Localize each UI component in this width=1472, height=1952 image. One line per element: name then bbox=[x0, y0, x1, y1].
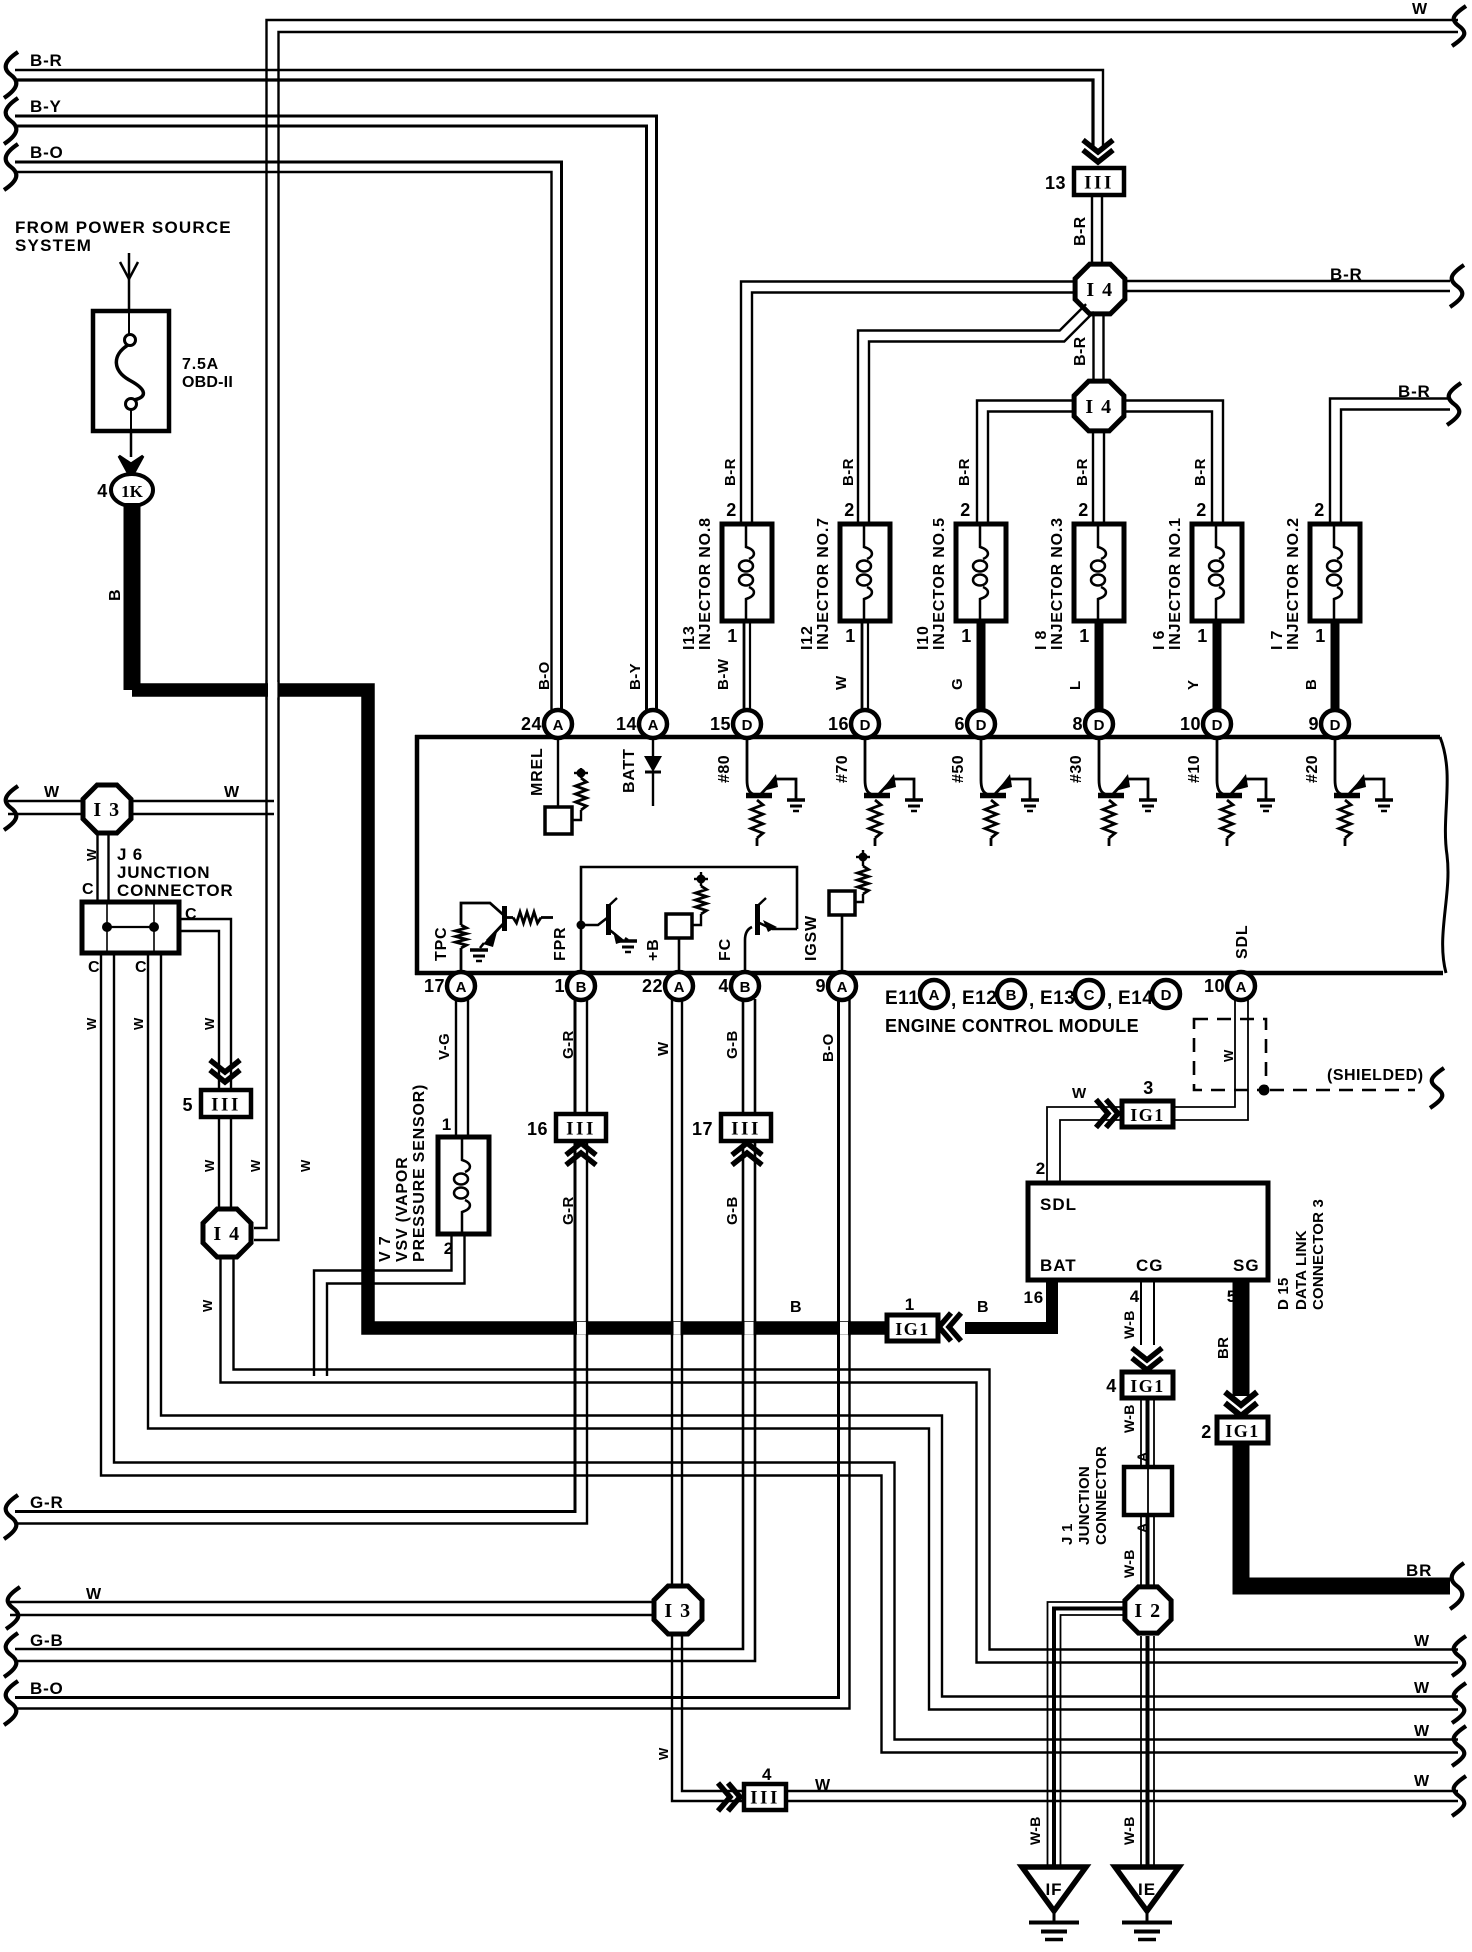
svg-text:D: D bbox=[1161, 987, 1172, 1004]
svg-text:BR: BR bbox=[1406, 1561, 1432, 1580]
wire G-B column bbox=[15, 999, 755, 1661]
svg-text:W: W bbox=[655, 1041, 672, 1056]
svg-text:C: C bbox=[88, 959, 100, 976]
svg-text:17: 17 bbox=[424, 976, 445, 996]
data link connector 3 (DLC3) box bbox=[1028, 1183, 1268, 1280]
connector 17 III bbox=[692, 1114, 771, 1141]
svg-text:I13: I13 bbox=[681, 625, 698, 650]
svg-text:G-R: G-R bbox=[30, 1493, 64, 1512]
svg-text:INJECTOR NO.5: INJECTOR NO.5 bbox=[931, 517, 948, 650]
svg-text:B-R: B-R bbox=[1398, 382, 1431, 401]
wire W-B from CG bbox=[1140, 1280, 1142, 1345]
svg-text:IG1: IG1 bbox=[1130, 1376, 1165, 1396]
transistor driver driver #80 bbox=[746, 739, 796, 846]
wire B thick from fuse bbox=[132, 690, 889, 1328]
svg-text:16: 16 bbox=[828, 714, 849, 734]
svg-text:W: W bbox=[84, 1017, 99, 1030]
svg-text:(SHIELDED): (SHIELDED) bbox=[1327, 1067, 1424, 1084]
wire B-Y feed bbox=[15, 116, 657, 712]
svg-text:I 3: I 3 bbox=[664, 1600, 691, 1622]
MREL relay driver bbox=[545, 738, 588, 834]
svg-text:W-B: W-B bbox=[1121, 1549, 1137, 1578]
connector continuation B-O left end bbox=[4, 1681, 18, 1725]
svg-text:SG: SG bbox=[1233, 1256, 1260, 1275]
wire B thick from fuse (vertical) bbox=[124, 503, 141, 690]
svg-text:IG1: IG1 bbox=[1225, 1421, 1260, 1441]
svg-text:PRESSURE SENSOR): PRESSURE SENSOR) bbox=[411, 1084, 428, 1262]
transistor driver driver #70 bbox=[864, 739, 914, 846]
svg-text:I10: I10 bbox=[915, 625, 932, 650]
svg-text:W: W bbox=[1414, 1723, 1430, 1740]
pin pin 22A +B bbox=[642, 972, 693, 1000]
pin pin 15D injector no.8 bbox=[710, 710, 761, 738]
svg-text:INJECTOR NO.2: INJECTOR NO.2 bbox=[1285, 517, 1302, 650]
svg-text:1: 1 bbox=[1079, 626, 1090, 646]
svg-text:2: 2 bbox=[1201, 1422, 1212, 1442]
label ECM connector legend E11-E14 bbox=[885, 980, 1180, 1011]
svg-text:2: 2 bbox=[1314, 500, 1325, 520]
svg-text:JUNCTION: JUNCTION bbox=[1076, 1466, 1093, 1545]
svg-text:A: A bbox=[1134, 1451, 1150, 1462]
svg-text:2: 2 bbox=[1196, 500, 1207, 520]
svg-text:14: 14 bbox=[616, 714, 637, 734]
svg-text:INJECTOR NO.8: INJECTOR NO.8 bbox=[697, 517, 714, 650]
svg-text:ENGINE CONTROL MODULE: ENGINE CONTROL MODULE bbox=[885, 1016, 1139, 1036]
transistor driver driver #10 bbox=[1216, 739, 1266, 846]
connector continuation shield right end bbox=[1430, 1068, 1444, 1108]
junction connector octagon I4 upper bbox=[1075, 264, 1125, 314]
ground IE bbox=[1115, 1867, 1179, 1940]
svg-text:B-W: B-W bbox=[715, 658, 732, 690]
svg-text:2: 2 bbox=[844, 500, 855, 520]
arrow into fuse bbox=[120, 253, 138, 311]
wire W J6 bottom1 staircase bbox=[101, 953, 1458, 1753]
connector 4 III bbox=[744, 1784, 786, 1810]
connector continuation W left end lower bbox=[6, 1587, 20, 1629]
svg-text:VSV (VAPOR: VSV (VAPOR bbox=[394, 1157, 411, 1263]
ground ground FPR bbox=[619, 941, 637, 952]
BATT diode bbox=[644, 738, 662, 806]
ground ground driver #30 bbox=[1139, 800, 1157, 811]
wire B-R feed from power source bbox=[15, 70, 1103, 150]
svg-text:W: W bbox=[298, 1159, 313, 1172]
svg-text:17: 17 bbox=[692, 1119, 713, 1139]
svg-text:,: , bbox=[1029, 990, 1035, 1011]
ground IF bbox=[1022, 1867, 1086, 1940]
connector 1K bbox=[111, 474, 153, 506]
svg-text:22: 22 bbox=[642, 976, 663, 996]
svg-text:L: L bbox=[1067, 680, 1084, 690]
wire B DLC3 BAT to corner bbox=[965, 1280, 1052, 1328]
connector continuation B-R right end 2 bbox=[1447, 383, 1461, 425]
wire B-R I4 upper to injector8 bbox=[741, 282, 1075, 524]
svg-text:W-B: W-B bbox=[1121, 1816, 1137, 1845]
svg-text:W: W bbox=[44, 784, 60, 801]
junction connector octagon I4 lower bbox=[1074, 381, 1124, 431]
svg-text:I 4: I 4 bbox=[213, 1223, 240, 1245]
wire W I4-left down staircase A bbox=[221, 1259, 1459, 1663]
wire W-B I2 down to IE ground bbox=[1141, 1636, 1154, 1866]
connector 16 III bbox=[527, 1114, 606, 1141]
svg-text:10: 10 bbox=[1180, 714, 1201, 734]
connector IG1 no.1 bbox=[887, 1315, 938, 1341]
connector IG1 no.4 bbox=[1106, 1372, 1173, 1398]
svg-text:1: 1 bbox=[442, 1115, 452, 1134]
svg-text:W: W bbox=[1221, 1049, 1236, 1062]
wire B-R 13III to I4 upper bbox=[1092, 195, 1102, 263]
TPC circuit bbox=[456, 903, 554, 972]
wire W-B IG1-4 to J1 bbox=[1141, 1398, 1154, 1467]
svg-text:W: W bbox=[833, 675, 850, 690]
svg-text:IF: IF bbox=[1045, 1880, 1062, 1899]
svg-text:A: A bbox=[674, 979, 685, 996]
svg-text:W: W bbox=[248, 1159, 263, 1172]
svg-text:G-B: G-B bbox=[30, 1631, 64, 1650]
svg-text:G-B: G-B bbox=[724, 1196, 741, 1225]
connector continuation W right exit A bbox=[1452, 1636, 1466, 1676]
connector IG1 no.3 bbox=[1122, 1078, 1173, 1127]
wire B-R I4 lower to injector5 bbox=[977, 401, 1073, 524]
svg-text:#30: #30 bbox=[1068, 755, 1085, 783]
svg-text:5: 5 bbox=[182, 1095, 193, 1115]
arrow arrow into 13-III bbox=[1083, 140, 1113, 162]
svg-text:D: D bbox=[742, 717, 753, 734]
pin pin 9A IGSW bbox=[815, 972, 856, 1000]
arrow arrow into IG1-2 bbox=[1225, 1392, 1257, 1416]
connector continuation BR right end bbox=[1450, 1563, 1464, 1609]
svg-text:I 4: I 4 bbox=[1086, 279, 1113, 301]
svg-text:1: 1 bbox=[1197, 626, 1208, 646]
svg-text:JUNCTION: JUNCTION bbox=[117, 863, 210, 882]
svg-text:B-O: B-O bbox=[30, 1679, 64, 1698]
svg-text:C: C bbox=[135, 959, 147, 976]
svg-text:W: W bbox=[815, 1777, 831, 1794]
svg-text:9: 9 bbox=[1308, 714, 1319, 734]
svg-text:A: A bbox=[553, 717, 564, 734]
injector injector no.5 (I10) bbox=[915, 500, 1006, 711]
svg-text:CONNECTOR: CONNECTOR bbox=[1093, 1446, 1110, 1545]
svg-text:4: 4 bbox=[718, 976, 729, 996]
pin pin 8D injector no.3 bbox=[1072, 710, 1113, 738]
svg-text:I 6: I 6 bbox=[1151, 630, 1168, 650]
svg-text:BAT: BAT bbox=[1040, 1256, 1077, 1275]
svg-text:,: , bbox=[1107, 990, 1113, 1011]
svg-text:7.5A: 7.5A bbox=[182, 356, 219, 373]
connector IG1 no.2 bbox=[1201, 1417, 1268, 1443]
pin pin 24A MREL bbox=[521, 710, 572, 738]
svg-text:TPC: TPC bbox=[433, 927, 450, 961]
svg-text:W: W bbox=[224, 784, 240, 801]
svg-text:3: 3 bbox=[1143, 1078, 1154, 1098]
connector 13 III bbox=[1045, 168, 1124, 195]
svg-text:SDL: SDL bbox=[1234, 925, 1251, 959]
svg-text:B: B bbox=[1006, 987, 1017, 1004]
svg-text:W: W bbox=[84, 848, 99, 861]
svg-text:D: D bbox=[1094, 717, 1105, 734]
svg-text:Y: Y bbox=[1185, 679, 1202, 690]
engine control module ECM outline bbox=[415, 735, 1448, 975]
junction connector octagon I2 bbox=[1125, 1587, 1171, 1633]
svg-text:B: B bbox=[977, 1299, 989, 1316]
svg-text:6: 6 bbox=[954, 714, 965, 734]
svg-text:W: W bbox=[86, 1586, 102, 1603]
svg-text:B-R: B-R bbox=[722, 458, 739, 486]
wire W left edge to I3 bbox=[8, 801, 82, 814]
svg-text:I 7: I 7 bbox=[1269, 630, 1286, 650]
arrow arrow into IG1-1 bbox=[939, 1313, 961, 1341]
svg-text:III: III bbox=[1084, 173, 1114, 194]
arrow arrow into 4-III bbox=[718, 1783, 740, 1811]
svg-text:B-O: B-O bbox=[30, 143, 64, 162]
svg-text:OBD-II: OBD-II bbox=[182, 374, 233, 391]
svg-text:B-R: B-R bbox=[1192, 458, 1209, 486]
wire fuse to 1K bbox=[130, 431, 133, 457]
wire V-G TPC to VSV bbox=[456, 999, 468, 1138]
+B input bbox=[666, 872, 708, 972]
svg-text:MREL: MREL bbox=[529, 747, 546, 796]
svg-text:1K: 1K bbox=[121, 482, 144, 501]
junction connector J1 bbox=[1124, 1467, 1172, 1515]
svg-text:E14: E14 bbox=[1118, 988, 1153, 1009]
svg-text:15: 15 bbox=[710, 714, 731, 734]
svg-text:W: W bbox=[202, 1159, 217, 1172]
svg-text:G-B: G-B bbox=[724, 1030, 741, 1059]
svg-text:G-R: G-R bbox=[560, 1196, 577, 1225]
wire W J6 bottom2 staircase bbox=[148, 953, 1458, 1710]
IGSW input bbox=[829, 850, 870, 972]
svg-text:W: W bbox=[656, 1747, 671, 1760]
FC transistor bbox=[745, 898, 797, 972]
svg-text:III: III bbox=[566, 1119, 596, 1140]
svg-text:D: D bbox=[860, 717, 871, 734]
svg-text:5: 5 bbox=[1227, 1287, 1237, 1306]
svg-text:13: 13 bbox=[1045, 173, 1066, 193]
svg-text:1: 1 bbox=[554, 976, 565, 996]
svg-text:J 6: J 6 bbox=[117, 845, 143, 864]
svg-text:W: W bbox=[200, 1299, 215, 1312]
svg-text:W: W bbox=[1414, 1773, 1430, 1790]
svg-text:16: 16 bbox=[527, 1119, 548, 1139]
svg-text:B-Y: B-Y bbox=[30, 97, 62, 116]
svg-text:J 1: J 1 bbox=[1059, 1523, 1076, 1545]
injector injector no.8 (I13) bbox=[681, 500, 772, 711]
junction connector J6 bbox=[82, 902, 179, 953]
svg-text:W-B: W-B bbox=[1121, 1404, 1137, 1433]
svg-text:I 3: I 3 bbox=[93, 799, 120, 821]
wire B-R I4 upper to right edge bbox=[1126, 281, 1450, 291]
connector continuation W right end top bbox=[1452, 6, 1466, 46]
arrow arrow into IG1-3 bbox=[1096, 1100, 1118, 1128]
wire SDL pin10 down to IG1-3 bbox=[1173, 999, 1248, 1120]
svg-text:A: A bbox=[1236, 979, 1247, 996]
FPR transistor bbox=[577, 898, 629, 972]
wire W IG1-3 to DLC3 pin2 bbox=[1047, 1107, 1121, 1184]
svg-text:I 4: I 4 bbox=[1085, 396, 1112, 418]
svg-text:9: 9 bbox=[815, 976, 826, 996]
svg-text:,: , bbox=[951, 990, 957, 1011]
svg-text:G: G bbox=[949, 678, 966, 690]
svg-text:FROM POWER SOURCE: FROM POWER SOURCE bbox=[15, 218, 232, 237]
pin pin 6D injector no.5 bbox=[954, 710, 995, 738]
svg-text:D: D bbox=[1330, 717, 1341, 734]
junction connector octagon I4 left bbox=[203, 1209, 251, 1257]
ground ground TPC bbox=[470, 950, 488, 961]
svg-text:B: B bbox=[107, 589, 124, 601]
svg-text:III: III bbox=[731, 1119, 761, 1140]
svg-text:W: W bbox=[1412, 1, 1428, 18]
svg-text:DATA LINK: DATA LINK bbox=[1293, 1230, 1310, 1310]
svg-text:#80: #80 bbox=[716, 755, 733, 783]
svg-text:FC: FC bbox=[717, 938, 734, 961]
svg-text:#10: #10 bbox=[1186, 755, 1203, 783]
wire W VSV pin2 wire bbox=[314, 1234, 465, 1376]
svg-text:W: W bbox=[1072, 1085, 1087, 1102]
shield dashed wire to right bbox=[1270, 1089, 1415, 1092]
injector injector no.1 (I 6) bbox=[1151, 500, 1242, 711]
svg-text:B: B bbox=[790, 1299, 802, 1316]
wire G-R column bbox=[15, 999, 587, 1524]
injector injector no.3 (I 8) bbox=[1033, 500, 1124, 711]
arrow arrow into 5-III bbox=[210, 1060, 240, 1082]
wire W I3 to W-vertical bbox=[132, 801, 274, 814]
svg-text:8: 8 bbox=[1072, 714, 1083, 734]
svg-text:2: 2 bbox=[1078, 500, 1089, 520]
connector continuation G-R left end bbox=[4, 1495, 18, 1539]
ground ground driver #10 bbox=[1257, 800, 1275, 811]
injector injector no.7 (I12) bbox=[799, 500, 890, 711]
svg-text:I12: I12 bbox=[799, 625, 816, 650]
arrow arrow into IG1-4 bbox=[1132, 1348, 1162, 1370]
svg-text:BATT: BATT bbox=[621, 748, 638, 793]
wire B-R injector2 to right edge bbox=[1330, 399, 1450, 524]
pin pin 10A SDL bbox=[1204, 972, 1255, 1000]
connector continuation B-O left end bbox=[4, 144, 18, 190]
svg-text:CONNECTOR: CONNECTOR bbox=[117, 881, 233, 900]
wire B-R between I4s bbox=[1094, 316, 1104, 380]
connector continuation G-B left end bbox=[4, 1633, 18, 1677]
svg-text:W: W bbox=[1414, 1633, 1430, 1650]
svg-text:4: 4 bbox=[1106, 1376, 1117, 1396]
svg-text:D: D bbox=[1212, 717, 1223, 734]
svg-text:IG1: IG1 bbox=[895, 1319, 930, 1339]
connector continuation W right exit C bbox=[1452, 1726, 1466, 1766]
svg-text:E13: E13 bbox=[1040, 988, 1075, 1009]
svg-text:1: 1 bbox=[727, 626, 738, 646]
connector continuation B-Y left end bbox=[4, 98, 18, 144]
arrow arrow below 16-III bbox=[566, 1143, 596, 1165]
wire B-O feed bbox=[15, 162, 562, 712]
junction connector octagon I3 lower bbox=[654, 1586, 702, 1634]
svg-text:CG: CG bbox=[1136, 1256, 1164, 1275]
wire BR IG1-2 to right edge bbox=[1241, 1445, 1450, 1586]
svg-text:A: A bbox=[837, 979, 848, 996]
transistor driver driver #20 bbox=[1334, 739, 1384, 846]
svg-text:C: C bbox=[1084, 987, 1095, 1004]
svg-text:IGSW: IGSW bbox=[803, 915, 820, 961]
wire W-B I2 left to IF ground bbox=[1048, 1602, 1125, 1866]
ground ground driver #70 bbox=[905, 800, 923, 811]
arrow solid into 1K bbox=[119, 456, 143, 478]
shield dashed box bbox=[1194, 1019, 1266, 1090]
svg-text:IE: IE bbox=[1138, 1880, 1156, 1899]
svg-text:CONNECTOR 3: CONNECTOR 3 bbox=[1310, 1199, 1327, 1310]
svg-text:INJECTOR NO.1: INJECTOR NO.1 bbox=[1167, 517, 1184, 650]
svg-text:V-G: V-G bbox=[436, 1033, 453, 1060]
svg-text:III: III bbox=[750, 1788, 780, 1809]
wire B-R I4 lower to injector3 bbox=[1093, 432, 1104, 523]
wire W J6 right to 5III bbox=[179, 919, 231, 1236]
connector continuation W left end (I3) bbox=[4, 786, 18, 830]
pin pin 16D injector no.7 bbox=[828, 710, 879, 738]
svg-text:1: 1 bbox=[1315, 626, 1326, 646]
svg-text:4: 4 bbox=[762, 1765, 772, 1784]
svg-text:2: 2 bbox=[726, 500, 737, 520]
ground ground driver #80 bbox=[787, 800, 805, 811]
svg-text:I 8: I 8 bbox=[1033, 630, 1050, 650]
svg-text:FPR: FPR bbox=[552, 927, 569, 961]
svg-text:D 15: D 15 bbox=[1275, 1278, 1292, 1311]
svg-text:B-R: B-R bbox=[956, 458, 973, 486]
svg-text:B-R: B-R bbox=[1072, 336, 1089, 366]
svg-text:B: B bbox=[740, 979, 751, 996]
svg-text:+B: +B bbox=[645, 939, 662, 962]
svg-text:A: A bbox=[456, 979, 467, 996]
wire B-R diagonal I4 to injector7 bbox=[858, 304, 1094, 523]
svg-text:B-O: B-O bbox=[536, 661, 553, 690]
pin pin 14A BATT bbox=[616, 710, 667, 738]
svg-text:W: W bbox=[202, 1017, 217, 1030]
svg-text:SYSTEM: SYSTEM bbox=[15, 236, 92, 255]
svg-text:2: 2 bbox=[960, 500, 971, 520]
transistor driver driver #50 bbox=[980, 739, 1030, 846]
svg-text:B-R: B-R bbox=[1330, 265, 1363, 284]
injector injector no.2 (I 7) bbox=[1269, 500, 1360, 711]
svg-text:E11: E11 bbox=[885, 988, 919, 1009]
svg-text:B-R: B-R bbox=[30, 51, 63, 70]
connector continuation W right exit B bbox=[1452, 1683, 1466, 1723]
pin pin 4B FC bbox=[718, 972, 759, 1000]
svg-text:#50: #50 bbox=[950, 755, 967, 783]
pin pin 1B FPR bbox=[554, 972, 595, 1000]
svg-text:1: 1 bbox=[961, 626, 972, 646]
svg-text:B-R: B-R bbox=[1072, 216, 1089, 246]
svg-text:V 7: V 7 bbox=[377, 1236, 394, 1262]
connector continuation B-R left end bbox=[4, 52, 18, 98]
connector 5 III bbox=[182, 1090, 251, 1117]
svg-text:INJECTOR NO.3: INJECTOR NO.3 bbox=[1049, 517, 1066, 650]
svg-text:W: W bbox=[131, 1017, 146, 1030]
svg-text:III: III bbox=[211, 1095, 241, 1116]
svg-text:IG1: IG1 bbox=[1130, 1105, 1165, 1125]
junction connector octagon I3 upper-left bbox=[83, 785, 131, 833]
svg-text:C: C bbox=[82, 881, 94, 898]
wire crossing gaps (white) bbox=[268, 682, 848, 1335]
svg-text:D: D bbox=[976, 717, 987, 734]
svg-text:1: 1 bbox=[845, 626, 856, 646]
connector continuation B-R right end 1 bbox=[1450, 265, 1464, 307]
svg-text:INJECTOR NO.7: INJECTOR NO.7 bbox=[815, 517, 832, 650]
svg-text:B-R: B-R bbox=[1074, 458, 1091, 486]
svg-text:W-B: W-B bbox=[1027, 1816, 1043, 1845]
svg-text:16: 16 bbox=[1023, 1288, 1044, 1307]
ground ground driver #50 bbox=[1021, 800, 1039, 811]
wire W column bbox=[672, 999, 1458, 1801]
svg-text:10: 10 bbox=[1204, 976, 1225, 996]
svg-text:1: 1 bbox=[905, 1295, 915, 1314]
shield junction dot bbox=[1259, 1085, 1270, 1096]
svg-text:B-R: B-R bbox=[840, 458, 857, 486]
arrow arrow below 17-III bbox=[732, 1143, 762, 1165]
